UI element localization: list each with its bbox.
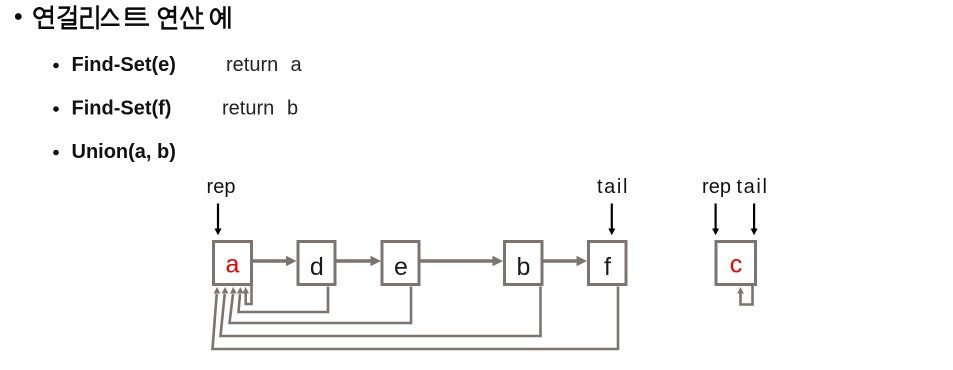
syllable 연 (2) (159, 6, 177, 29)
node box d (298, 242, 335, 285)
svg-text:e: e (394, 253, 408, 281)
svg-text:b: b (517, 253, 531, 281)
syllable 트 (125, 8, 149, 24)
svg-text:return: return (222, 98, 274, 120)
title bullet (15, 13, 22, 20)
arrow b to f (544, 256, 588, 267)
svg-text:Union(a, b): Union(a, b) (72, 141, 176, 163)
svg-text:tail: tail (737, 176, 769, 198)
node box a (214, 242, 252, 285)
self loop under node c (737, 286, 752, 305)
svg-text:tail: tail (597, 176, 629, 198)
svg-text:Find-Set(f): Find-Set(f) (72, 98, 172, 120)
arrow e to b (421, 256, 504, 267)
back edge b to a (221, 287, 541, 337)
svg-text:b: b (287, 98, 298, 120)
bullet line 2 (53, 106, 59, 112)
rep arrow to node a (215, 204, 222, 236)
svg-text:return: return (226, 54, 278, 76)
bullet line 1 (53, 63, 59, 69)
back edge d to a (237, 287, 328, 313)
syllable 예 (211, 6, 229, 29)
svg-text:c: c (730, 251, 743, 279)
svg-text:rep: rep (702, 176, 731, 198)
tail arrow to node c (751, 204, 758, 236)
syllable 결 (58, 5, 77, 28)
syllable 산 (181, 6, 204, 28)
svg-text:Find-Set(e): Find-Set(e) (72, 54, 176, 76)
back edge e to a (230, 287, 412, 324)
syllable 리 (81, 5, 98, 29)
svg-text:d: d (310, 253, 324, 281)
svg-text:a: a (226, 251, 240, 279)
node box c (716, 242, 756, 285)
arrow a to d (253, 256, 297, 267)
tail arrow to node f (608, 204, 615, 236)
bullet line 3 (53, 150, 59, 156)
node box e (382, 242, 419, 285)
svg-text:rep: rep (207, 176, 236, 198)
title Korean text: 연결리스트 연산 예 (drawn as strokes) (35, 5, 230, 29)
node box f (589, 242, 627, 285)
syllable 스 (101, 9, 120, 25)
rep arrow to node c (712, 204, 719, 236)
back edge f to a (213, 287, 619, 350)
syllable 연 (1) (35, 6, 55, 28)
arrow d to e (337, 256, 382, 267)
svg-text:a: a (291, 54, 303, 76)
svg-text:f: f (604, 253, 611, 281)
node box b (505, 242, 543, 285)
self loop under node a (242, 286, 251, 304)
